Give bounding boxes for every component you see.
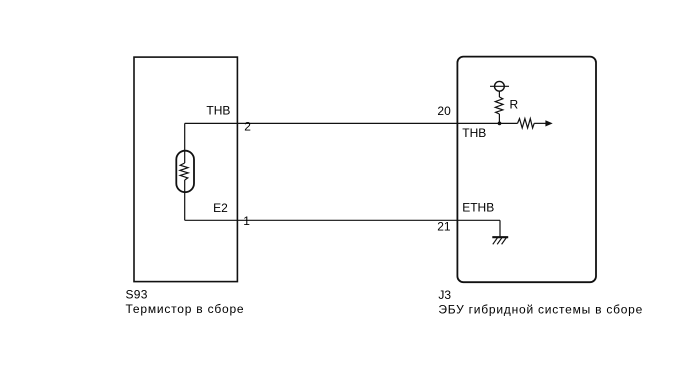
junction dot (THB node) xyxy=(498,122,502,126)
svg-text:1: 1 xyxy=(243,214,250,228)
wire: vertical lead from THB wire down to thermistor top xyxy=(184,123,186,163)
svg-text:ЭБУ гибридной системы в сборе: ЭБУ гибридной системы в сборе xyxy=(438,302,642,316)
svg-text:E2: E2 xyxy=(213,201,228,215)
wire: resistor to arrow xyxy=(534,122,546,124)
wire: resistor R to junction xyxy=(498,114,500,123)
component box S93 (thermistor assembly) xyxy=(134,57,237,282)
ground symbol (ECU internal ground) xyxy=(492,237,508,244)
wire: ETHB pin down to ground xyxy=(499,220,501,236)
thermistor S93 symbol (resistor zigzag inside oval) xyxy=(180,163,188,180)
component box J3 (hybrid ECU, rounded) xyxy=(457,57,596,283)
svg-text:ETHB: ETHB xyxy=(462,200,494,214)
power symbol (circle with bar) at top of pull-up xyxy=(490,81,509,91)
svg-text:J3: J3 xyxy=(438,288,451,302)
resistor R (vertical pull-up zigzag) xyxy=(495,97,503,114)
svg-text:R: R xyxy=(510,98,519,112)
wire: E2/ETHB net, horizontal from thermistor to ECU ground xyxy=(185,219,500,221)
svg-text:S93: S93 xyxy=(126,288,148,302)
resistor (horizontal, unlabeled, to ADC) xyxy=(518,119,535,128)
wire: junction to internal resistor xyxy=(499,122,517,124)
svg-text:THB: THB xyxy=(206,103,230,117)
wire: power symbol to resistor R xyxy=(498,91,500,97)
svg-text:THB: THB xyxy=(462,126,486,140)
wire: vertical lead from thermistor bottom down to E2 wire xyxy=(184,180,186,220)
svg-text:2: 2 xyxy=(244,120,251,134)
svg-text:21: 21 xyxy=(437,220,451,234)
wire: THB net, horizontal from thermistor to ECU junction xyxy=(185,122,500,124)
thermistor S93 symbol (oval body) xyxy=(176,151,194,193)
svg-text:20: 20 xyxy=(437,104,451,118)
arrow head (signal into ECU logic) xyxy=(545,120,552,126)
svg-text:Термистор в сборе: Термистор в сборе xyxy=(126,302,244,316)
